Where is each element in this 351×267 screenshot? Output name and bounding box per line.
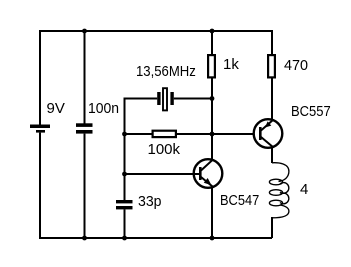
resistor R2 470 [268,55,275,77]
wire left mid branch (crystal to 100k to 33p) [124,98,126,201]
label 9V [47,101,65,116]
label 470 [284,58,308,73]
resistor R3 100k [153,131,176,137]
wire 100k right lead to BC557 base [177,133,253,135]
node junction 100k right / vertical branch [210,132,215,137]
crystal X1 13,56MHz [157,88,174,110]
node junction bottom rail / BC547 emitter [210,236,215,241]
wire 470 bottom lead to BC557 emitter [271,79,273,121]
wire 33p bottom lead [124,209,126,238]
wire 100n top lead [84,31,86,124]
wire coil bottom lead [271,217,273,238]
node junction crystal / 1k / collector line [210,96,215,101]
node junction 100k left [122,132,127,137]
resistor R1 1k [208,55,215,77]
wire left branch upper (battery top lead) [39,30,41,125]
wire 1k top lead [211,31,213,55]
capacitor C2 33p [116,200,133,209]
label BC557 [291,104,331,119]
transistor Q2 BC557 [254,119,283,148]
label 1k [223,57,239,72]
node junction 33p top / base wire [122,172,127,177]
label 100k [148,142,181,157]
wire crystal left lead [125,98,158,100]
label 100n [88,101,119,116]
wire 470 top lead [271,30,273,55]
node junction top rail / 1k [210,29,215,34]
wire BC547 collector lead [211,134,213,161]
inductor L1 4 turns [269,163,289,218]
label BC547 [220,193,259,208]
wire BC547 emitter lead [211,186,213,238]
wire bottom rail [40,237,272,239]
label 4 [300,182,308,197]
wire 1k bottom lead to crystal node [211,79,213,99]
label 33p [138,194,162,209]
battery BT1 9V [30,125,50,133]
wire collector line 1k node to BC547 [211,99,213,161]
node junction top rail / 100n [82,29,87,34]
wire 100k left lead [125,133,152,135]
label 13,56MHz [136,64,196,79]
wire crystal right lead [174,98,212,100]
transistor Q1 BC547 [194,159,223,188]
wire top rail [40,30,272,32]
node junction bottom rail / 100n [82,236,87,241]
wire 100n bottom lead [84,134,86,238]
node junction bottom rail / 33p [122,236,127,241]
wire BC547 base lead [125,173,200,175]
wire battery bottom lead [39,133,41,239]
capacitor C1 100n [76,123,93,133]
wire BC557 collector lead to coil [271,147,273,163]
